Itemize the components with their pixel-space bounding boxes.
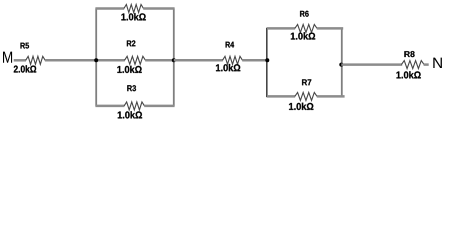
wire right block to R8 [341,63,402,66]
right block left vertical wire [266,28,268,98]
bottom branch wire left [95,105,124,108]
node M [3,52,12,63]
middle branch wire left [96,59,125,62]
value 2.0k ohm (R5) [14,65,36,72]
wire R8 to node N [424,63,429,66]
resistor R1 top branch [124,5,144,13]
value 1.0k ohm (R7) [289,103,313,110]
left block right vertical wire [173,9,175,106]
resistor R4 [223,56,243,64]
wire R4 to right block [242,59,268,62]
resistor R2 [125,56,146,64]
label R8 [404,51,414,57]
bottom branch wire to R7 [267,95,295,98]
wire left block to R4 [174,59,223,62]
wire R5 to left block [45,59,97,62]
value 1.0k ohm (R3) [118,111,142,118]
label R4 [226,42,235,48]
junction dot node between R5 and parallel block [94,58,98,62]
resistor R7 [295,92,317,100]
resistor R5 [26,56,46,64]
label R5 [21,43,30,49]
bottom branch wire from R7 [317,95,345,98]
left block left vertical wire [95,9,97,106]
resistor R6 [295,24,317,32]
value 1.0k ohm (R2) [117,66,141,73]
top branch wire right [143,7,174,10]
top branch wire to R6 [267,27,295,30]
junction dot right block input [265,58,269,62]
junction dot parallel block output [172,58,176,62]
middle branch wire right [145,59,174,62]
label R7 [302,79,311,85]
right block right vertical wire [341,28,343,96]
value 1.0k ohm (R4) [216,64,240,71]
top branch wire left [95,7,124,10]
resistor R3 [124,102,144,110]
value 1.0k ohm (R8) [397,71,421,78]
label R6 [300,11,309,17]
top branch wire from R6 [317,27,343,30]
label R3 [127,85,136,91]
node N [433,58,442,68]
label R2 [127,40,135,46]
value 1.0k ohm (top resistor) [121,13,145,20]
junction dot right block output [339,63,343,67]
value 1.0k ohm (R6) [291,32,315,39]
bottom branch wire right [144,105,174,108]
resistor R8 [401,61,424,69]
wire M to R5 [14,59,26,62]
